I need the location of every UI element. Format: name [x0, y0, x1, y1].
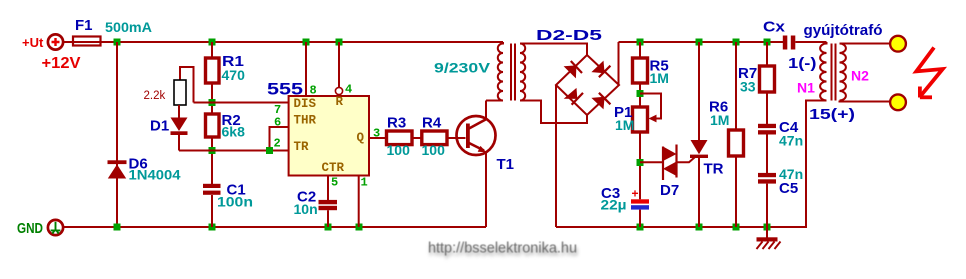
wire C4 to C5 — [766, 135, 768, 174]
ground symbol — [757, 227, 781, 249]
junction hv rail x698 — [696, 39, 703, 46]
svg-text:http://bsselektronika.hu: http://bsselektronika.hu — [428, 241, 577, 257]
resistor R6 — [729, 130, 744, 156]
diac D7 — [663, 145, 677, 181]
wire diac left — [640, 161, 663, 163]
resistor 2.2k — [174, 80, 186, 105]
wire R3 to R4 — [412, 137, 422, 139]
wire terminal to fuse — [63, 41, 73, 43]
resistor R3 — [387, 131, 413, 145]
svg-text:R4: R4 — [422, 115, 442, 132]
svg-text:100n: 100n — [217, 194, 253, 210]
junction bottom rail x736 — [733, 224, 740, 231]
terminal spark bottom — [890, 94, 906, 110]
wire 2.2k top bend — [180, 67, 194, 103]
wire secondary top to bridge — [520, 44, 587, 56]
terminal spark top — [890, 36, 906, 52]
capacitor C1 — [203, 184, 221, 195]
wire TR horizontal — [179, 150, 289, 152]
wire N2 top to terminal — [840, 43, 891, 45]
transformer ignition N2 winding — [840, 44, 846, 101]
transformer ignition core — [832, 44, 836, 101]
svg-text:DIS: DIS — [294, 97, 317, 111]
spark lightning arrow — [916, 48, 942, 98]
svg-text:100: 100 — [422, 142, 446, 158]
diode D3 upper-right — [591, 61, 610, 78]
svg-text:6k8: 6k8 — [222, 124, 246, 140]
resistor R7 — [760, 66, 775, 92]
svg-text:THR: THR — [294, 114, 317, 128]
svg-text:Cx: Cx — [763, 19, 786, 36]
wire secondary bottom to bridge — [520, 101, 587, 124]
svg-text:1M: 1M — [615, 117, 634, 133]
capacitor Cx — [783, 36, 796, 50]
svg-text:TR: TR — [294, 140, 310, 154]
junction top rail pin8 — [303, 39, 310, 46]
diode D5 lower-right — [591, 93, 610, 110]
svg-text:15(+): 15(+) — [809, 106, 855, 123]
wire N2 bottom to terminal — [840, 101, 891, 102]
inversion bubble pin 4 — [335, 87, 342, 94]
svg-text:4: 4 — [345, 83, 352, 97]
svg-text:C5: C5 — [779, 180, 798, 197]
svg-text:F1: F1 — [75, 17, 93, 34]
svg-text:2.2k: 2.2k — [144, 90, 166, 102]
svg-text:2: 2 — [274, 137, 281, 151]
svg-text:N2: N2 — [851, 68, 869, 84]
junction hv rail x766 — [764, 39, 771, 46]
svg-text:1M: 1M — [710, 112, 729, 128]
junction top rail x117 — [114, 39, 121, 46]
junction hv rail x640 — [637, 39, 644, 46]
svg-text:1N4004: 1N4004 — [129, 167, 181, 183]
transformer TR1 secondary winding — [520, 44, 525, 101]
junction bottom rail x766 — [764, 224, 771, 231]
junction bottom rail x698 — [696, 224, 703, 231]
svg-text:GND: GND — [17, 221, 43, 237]
svg-text:10n: 10n — [294, 201, 318, 217]
wire thyristor anode — [698, 42, 700, 140]
junction bottom rail x640 — [637, 224, 644, 231]
wire D6 column — [116, 42, 118, 227]
junction gnd rail x328 — [325, 224, 332, 231]
junction TR node x212 — [209, 147, 216, 154]
svg-text:1: 1 — [361, 176, 368, 190]
wire C2 to gnd — [327, 210, 329, 227]
junction hv rail x736 — [733, 39, 740, 46]
svg-text:22µ: 22µ — [601, 197, 627, 213]
svg-text:R: R — [336, 95, 344, 109]
potentiometer P1 — [633, 94, 662, 133]
wire pin 1 — [358, 176, 360, 228]
wire THR jog — [270, 127, 289, 151]
wire T1 emitter to gnd — [485, 152, 487, 227]
op-amp U1 555 body — [289, 96, 369, 176]
resistor R4 — [422, 131, 447, 145]
svg-text:CTR: CTR — [322, 161, 345, 175]
diode D2 upper-left — [564, 61, 582, 78]
terminal GND — [48, 220, 63, 235]
wire Cx to trafo — [795, 41, 826, 43]
wire DIS horizontal — [194, 102, 289, 104]
terminal +Ut — [48, 34, 63, 49]
svg-text:555: 555 — [267, 80, 303, 99]
wire R4 to base — [447, 137, 466, 139]
wire bottom rail right — [556, 101, 827, 228]
junction gnd rail x212 — [209, 224, 216, 231]
svg-text:D7: D7 — [660, 182, 679, 199]
junction gnd rail x359 — [356, 224, 363, 231]
capacitor C4 — [758, 124, 776, 135]
wire R6 bottom — [735, 156, 737, 227]
svg-text:gyújtótrafó: gyújtótrafó — [804, 22, 883, 39]
svg-text:500mA: 500mA — [105, 19, 152, 35]
wire R5 column top — [639, 42, 641, 58]
wire R1 R2 column — [211, 42, 213, 227]
wire bridge minus down — [555, 85, 557, 227]
svg-text:1M: 1M — [650, 70, 669, 86]
bridge rectifier D2-D5 diamond — [556, 55, 619, 115]
wire R7 column top — [766, 42, 768, 66]
svg-text:470: 470 — [222, 67, 246, 83]
svg-text:Q: Q — [357, 131, 365, 145]
svg-text:100: 100 — [387, 142, 411, 158]
svg-text:5: 5 — [331, 176, 338, 190]
fuse F1 — [73, 37, 101, 46]
wire C3 to gnd — [639, 210, 641, 227]
capacitor C2 — [319, 200, 338, 210]
diode D4 lower-left — [564, 88, 583, 105]
capacitor C5 — [758, 173, 776, 184]
wire pin 5 — [327, 176, 329, 201]
junction top rail x212 — [209, 39, 216, 46]
svg-text:47n: 47n — [779, 133, 803, 149]
junction R5 P1 — [637, 90, 644, 97]
junction THR TR — [266, 147, 273, 154]
wire C5 to gnd — [766, 184, 768, 227]
wire P1 to C3 — [639, 132, 641, 199]
svg-text:N1: N1 — [797, 80, 815, 96]
resistor R1 — [206, 58, 220, 83]
svg-text:6: 6 — [274, 116, 281, 130]
svg-text:8: 8 — [310, 84, 317, 98]
wire bottom GND rail left — [63, 226, 486, 228]
wire R7 to C4 — [766, 92, 768, 124]
wire T1 collector — [485, 101, 487, 120]
svg-text:TR: TR — [704, 161, 724, 178]
resistor R5 — [633, 58, 648, 83]
wire R5 to P1 — [639, 83, 641, 107]
junction DIS node — [209, 99, 216, 106]
svg-text:R3: R3 — [387, 115, 406, 132]
junction top rail pin4 — [336, 39, 343, 46]
svg-text:+12V: +12V — [42, 55, 81, 72]
junction gnd rail x117 — [114, 224, 121, 231]
wire R6 column top — [735, 42, 737, 130]
svg-text:33: 33 — [740, 79, 756, 95]
svg-text:T1: T1 — [497, 156, 515, 173]
svg-text:D1: D1 — [150, 118, 169, 135]
junction diac node — [637, 159, 644, 166]
wire HV plus rail — [619, 41, 784, 43]
thyristor TR — [690, 140, 708, 158]
wire thyristor cathode — [698, 158, 700, 227]
capacitor C3 electrolytic — [631, 199, 649, 209]
wire pin 8 — [305, 42, 307, 96]
transformer TR1 core — [511, 44, 515, 101]
wire pin 4 — [338, 42, 340, 87]
wire pin 3 — [369, 137, 387, 139]
diode D6 — [108, 160, 127, 178]
svg-text:+: + — [632, 187, 639, 201]
wire diac to gate — [677, 157, 695, 162]
transistor T1 — [457, 116, 496, 155]
wire D1 to TR net — [178, 135, 180, 151]
transformer ignition N1 winding — [820, 42, 826, 101]
transformer TR1 primary winding — [486, 42, 503, 101]
wire top +12V rail — [101, 41, 504, 43]
resistor R2 — [206, 114, 220, 137]
svg-text:1(-): 1(-) — [788, 55, 817, 72]
diode D1 — [171, 118, 188, 136]
svg-text:9/230V: 9/230V — [434, 60, 491, 76]
wire bridge plus up — [618, 42, 620, 85]
wire 2.2k to D1 — [178, 105, 180, 118]
svg-text:+Ut: +Ut — [22, 35, 44, 50]
svg-text:D2-D5: D2-D5 — [536, 27, 602, 44]
